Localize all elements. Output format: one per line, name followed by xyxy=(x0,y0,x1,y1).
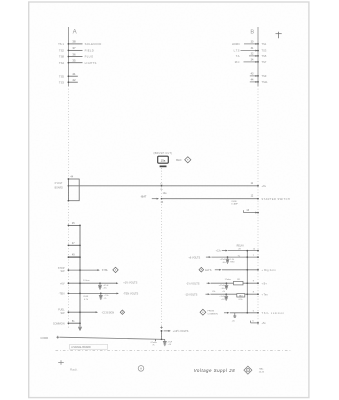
svg-text:TS5: TS5 xyxy=(59,74,65,78)
svg-text:37: 37 xyxy=(72,46,76,50)
svg-text:-7k: -7k xyxy=(104,298,107,300)
svg-text:+ Big horn: + Big horn xyxy=(262,269,277,272)
svg-text:RED: RED xyxy=(230,262,235,264)
svg-text:TS7: TS7 xyxy=(262,60,267,64)
svg-text:+1k: +1k xyxy=(222,291,225,293)
svg-text:+13½ VOLTS: +13½ VOLTS xyxy=(173,329,189,333)
svg-text:+1½ VOLTS: +1½ VOLTS xyxy=(123,280,137,284)
svg-text:36: 36 xyxy=(72,52,76,56)
svg-text:+7uF: +7uF xyxy=(219,296,224,298)
svg-text:-1½ VOLTS: -1½ VOLTS xyxy=(186,282,200,286)
svg-text:TS3: TS3 xyxy=(262,49,267,53)
svg-text:L.T.S: L.T.S xyxy=(234,49,240,53)
svg-text:+6V: +6V xyxy=(60,282,65,285)
svg-text:-TEN: -TEN xyxy=(59,293,65,296)
svg-text:+47uF: +47uF xyxy=(218,285,225,287)
svg-text:COMM: COMM xyxy=(40,337,48,340)
svg-text:RELAY: RELAY xyxy=(237,245,245,248)
svg-text:+47uF: +47uF xyxy=(220,259,227,261)
svg-text:41: 41 xyxy=(72,72,76,76)
svg-text:-16v: -16v xyxy=(221,288,225,290)
svg-text:SOLENOID: SOLENOID xyxy=(85,42,102,46)
svg-text:TS2: TS2 xyxy=(59,49,65,53)
svg-text:+ Ten: + Ten xyxy=(262,293,269,296)
svg-text:42: 42 xyxy=(72,78,76,82)
svg-text:BOARD: BOARD xyxy=(55,187,64,190)
svg-text:-CC B SIGN: -CC B SIGN xyxy=(102,312,115,314)
svg-text:-16v: -16v xyxy=(103,288,107,290)
svg-text:ST.BL: ST.BL xyxy=(102,270,109,272)
svg-text:ELTS: ELTS xyxy=(205,269,211,272)
svg-text:47uF: 47uF xyxy=(168,341,173,343)
svg-text:+6v: +6v xyxy=(262,184,267,188)
svg-text:15 AMP: 15 AMP xyxy=(231,203,238,206)
svg-text:A: A xyxy=(73,30,77,36)
svg-text:PLUG: PLUG xyxy=(85,55,94,59)
svg-text:FIELD: FIELD xyxy=(85,49,95,53)
svg-text:TS9: TS9 xyxy=(262,74,267,78)
svg-text:+12v: +12v xyxy=(216,250,222,253)
svg-text:FROM: FROM xyxy=(208,311,215,313)
svg-text:SW: SW xyxy=(60,312,65,315)
svg-text:SW: SW xyxy=(60,270,65,273)
svg-text:TS1: TS1 xyxy=(262,42,267,46)
svg-text:+6 VOLTS: +6 VOLTS xyxy=(188,255,200,259)
svg-text:TS3: TS3 xyxy=(59,80,65,84)
svg-text:45k: 45k xyxy=(212,291,215,293)
svg-text:-16v: -16v xyxy=(222,262,226,264)
svg-text:+47uF: +47uF xyxy=(103,285,110,287)
svg-text:A SIGNAL BOARD: A SIGNAL BOARD xyxy=(71,346,91,349)
svg-text:LIGHTS: LIGHTS xyxy=(85,61,97,65)
svg-text:-TEN VOLTS: -TEN VOLTS xyxy=(123,292,138,296)
svg-text:1.5k: 1.5k xyxy=(230,259,234,261)
svg-text:6548: 6548 xyxy=(83,296,89,298)
svg-text:R.a.d.i.: R.a.d.i. xyxy=(70,369,78,371)
svg-text:17ohm: 17ohm xyxy=(225,279,232,281)
svg-text:TS/L common: TS/L common xyxy=(262,312,285,315)
svg-text:+7.5k: +7.5k xyxy=(104,295,109,297)
svg-text:HORN: HORN xyxy=(232,42,240,46)
svg-text:COMMON: COMMON xyxy=(53,322,65,325)
svg-text:COMMON: COMMON xyxy=(208,314,219,316)
svg-text:T.A: T.A xyxy=(236,54,240,58)
svg-text:STARTER SWITCH: STARTER SWITCH xyxy=(262,197,291,201)
svg-text:(BRUSH CUT): (BRUSH CUT) xyxy=(154,152,173,155)
svg-text:M.C: M.C xyxy=(235,60,240,64)
svg-text:12-74: 12-74 xyxy=(259,372,265,374)
svg-text:35: 35 xyxy=(72,59,76,63)
svg-text:6 VOLT: 6 VOLT xyxy=(55,183,63,185)
svg-text:17ohm: 17ohm xyxy=(83,280,90,282)
svg-text:Voltage Suppl 28: Voltage Suppl 28 xyxy=(194,368,235,373)
svg-text:BLO: BLO xyxy=(176,158,181,162)
svg-text:+ B+: + B+ xyxy=(262,283,268,286)
svg-text:67ohm: 67ohm xyxy=(151,342,158,344)
svg-text:A: A xyxy=(140,367,142,371)
svg-text:TS4: TS4 xyxy=(59,61,65,65)
svg-text:TS5: TS5 xyxy=(262,54,267,58)
svg-text:TS 1: TS 1 xyxy=(58,42,64,46)
svg-text:-BAT: -BAT xyxy=(141,195,147,199)
svg-text:38: 38 xyxy=(72,40,76,44)
svg-text:15a: 15a xyxy=(161,158,166,162)
svg-text:TS11: TS11 xyxy=(262,80,269,84)
svg-text:-10 VOLTS: -10 VOLTS xyxy=(185,292,198,296)
svg-text:TS8: TS8 xyxy=(59,55,65,59)
svg-text:B: B xyxy=(250,29,254,35)
